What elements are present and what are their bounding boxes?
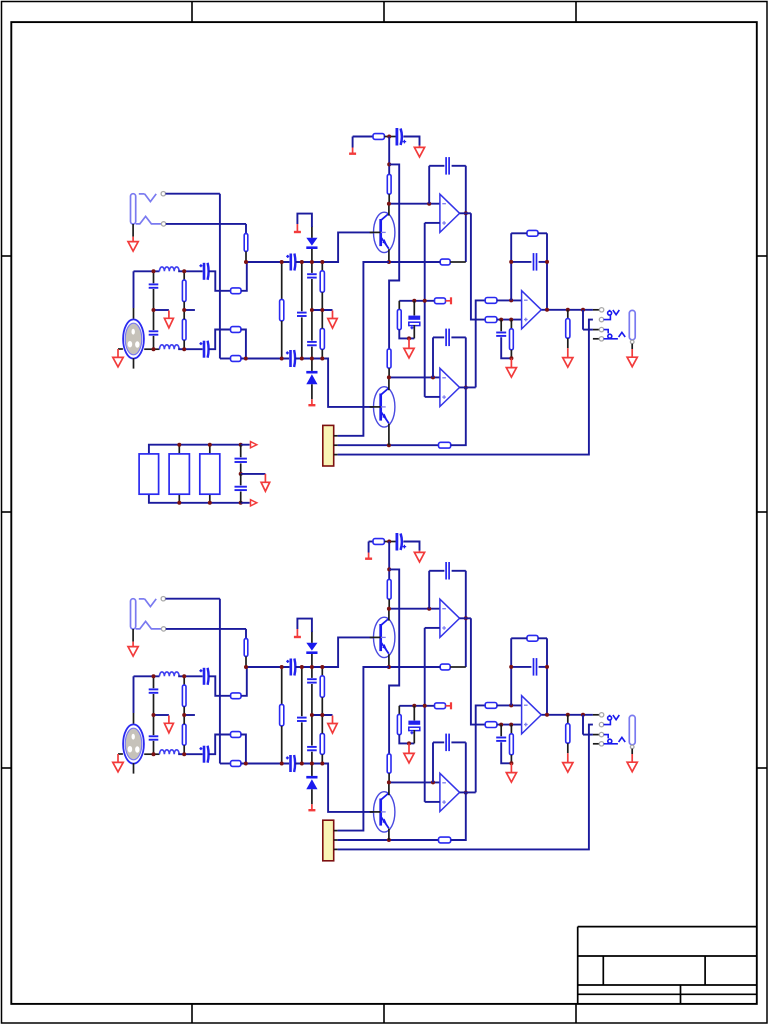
ground: [261, 474, 270, 491]
wire: [567, 338, 569, 348]
junction: [412, 704, 416, 708]
wire: [389, 376, 440, 378]
pin: [599, 732, 603, 736]
jack J2 contact link: [604, 315, 611, 319]
wire: [425, 627, 440, 629]
wire: [593, 734, 599, 736]
connector J1 input jack body: [131, 194, 136, 224]
wire: [460, 791, 476, 793]
wire: [542, 714, 593, 716]
wire: [338, 444, 439, 446]
resistor R2B: [231, 693, 241, 699]
diode D2B: [306, 776, 317, 789]
op-amp U1B: [440, 599, 460, 637]
wire: [398, 706, 400, 715]
jack J2B tip contact: [608, 715, 620, 720]
wire: [321, 292, 323, 310]
wire: [321, 349, 323, 358]
wire: [389, 608, 440, 610]
wire: [183, 340, 185, 349]
port: [241, 444, 250, 446]
resistor RN1: [139, 454, 159, 494]
junction: [320, 713, 324, 717]
tick mark: [575, 1004, 577, 1023]
resistor R7: [280, 299, 284, 321]
wire: [321, 754, 323, 763]
junction: [387, 607, 391, 611]
wire: [321, 667, 323, 676]
capacitor C11 feedback: [446, 157, 449, 175]
wire: [311, 279, 313, 310]
junction: [244, 260, 248, 264]
pin: [599, 713, 603, 717]
tick mark: [2, 767, 12, 769]
wire: [476, 705, 486, 792]
junction: [431, 780, 435, 784]
connector P1 header: [323, 425, 334, 466]
junction: [464, 386, 468, 390]
wire: [246, 666, 289, 668]
junction: [387, 540, 391, 544]
wire: [465, 166, 467, 262]
resistor R8B: [320, 676, 324, 698]
wire: [132, 629, 134, 642]
wire: [424, 223, 426, 397]
wire: [471, 213, 485, 319]
wire: [209, 735, 231, 755]
wire: [241, 735, 246, 764]
wire: [460, 617, 471, 619]
junction: [387, 443, 391, 447]
power terminal: [349, 148, 356, 154]
junction: [509, 318, 513, 322]
resistor R3: [231, 327, 241, 333]
wire: [388, 194, 390, 204]
wire: [183, 707, 185, 716]
wire: [241, 262, 247, 291]
power terminal: [308, 399, 315, 405]
wire: [451, 388, 466, 446]
capacitor C3B: [199, 668, 208, 685]
capacitor C10B: [397, 533, 406, 551]
junction: [310, 357, 314, 361]
wire: [511, 261, 531, 263]
wire: [389, 569, 399, 754]
wire: [297, 619, 312, 632]
resistor R5B: [182, 724, 186, 745]
wire: [389, 164, 399, 349]
junction: [182, 713, 186, 717]
wire: [593, 338, 599, 340]
wire: [388, 424, 390, 446]
resistor R15B: [397, 715, 401, 735]
wire: [245, 251, 247, 262]
tick mark: [757, 255, 767, 257]
wire: [311, 249, 313, 262]
wire: [295, 764, 374, 812]
wire: [398, 301, 400, 310]
diode D2: [306, 371, 317, 384]
junction: [152, 752, 156, 756]
wire: [511, 637, 527, 639]
capacitor CN2: [235, 487, 247, 490]
wire: [471, 618, 485, 724]
pin: [599, 317, 603, 321]
wire: [312, 309, 333, 311]
jack J2 sleeve contact: [604, 332, 626, 338]
jack J2B contact: [604, 735, 609, 739]
junction: [177, 443, 181, 447]
resistor R12: [387, 349, 391, 368]
capacitor C12B electrolytic: [408, 721, 420, 735]
wire: [388, 249, 390, 262]
wire: [281, 262, 283, 299]
wire: [433, 741, 444, 743]
junction: [509, 723, 513, 727]
power terminal: [446, 297, 452, 304]
wire: [497, 319, 522, 321]
junction: [423, 299, 427, 303]
capacitor C15: [496, 333, 506, 336]
pin: [599, 327, 603, 331]
wire: [425, 801, 440, 803]
pin: [599, 742, 603, 746]
wire: [452, 570, 466, 572]
wire: [311, 684, 313, 715]
resistor R6B: [231, 761, 241, 767]
tick mark: [383, 2, 385, 23]
wire: [153, 271, 155, 283]
junction: [152, 347, 156, 351]
junction: [208, 443, 212, 447]
junction: [239, 443, 243, 447]
wire: [240, 474, 242, 485]
junction: [310, 260, 314, 264]
wire: [183, 745, 185, 754]
capacitor C10: [397, 128, 406, 146]
junction: [464, 616, 468, 620]
tick mark: [575, 2, 577, 23]
wire: [428, 571, 430, 609]
wire: [546, 638, 548, 715]
pin: [630, 340, 634, 344]
pin: [599, 722, 603, 726]
wire: [144, 753, 159, 755]
wire: [582, 715, 584, 735]
wire: [388, 368, 390, 377]
capacitor C1: [149, 284, 159, 287]
wire: [245, 224, 247, 234]
junction: [280, 260, 284, 264]
ground: [328, 311, 337, 329]
pin: [161, 627, 165, 631]
wire: [352, 137, 354, 148]
junction: [545, 260, 549, 264]
wire: [403, 137, 419, 146]
capacitor C7: [297, 313, 307, 316]
wire: [295, 637, 373, 667]
wire: [311, 226, 313, 238]
jack J1B ring contact: [136, 621, 161, 629]
wire: [178, 348, 202, 350]
ground: [128, 642, 138, 657]
resistor R12B: [387, 754, 391, 773]
wire: [240, 463, 242, 474]
wire: [388, 773, 390, 782]
junction: [566, 713, 570, 717]
wire: [476, 300, 486, 387]
junction: [387, 780, 391, 784]
junction: [581, 713, 585, 717]
inductor L2B: [160, 750, 180, 754]
pin: [334, 848, 338, 850]
wire: [178, 675, 202, 677]
junction: [310, 308, 314, 312]
capacitor C9B: [307, 747, 317, 750]
wire: [510, 320, 512, 329]
resistor R19: [510, 329, 514, 350]
diode D1: [306, 238, 317, 249]
junction: [280, 762, 284, 766]
junction: [509, 665, 513, 669]
wire: [369, 541, 373, 543]
wire: [511, 666, 531, 668]
wire: [500, 320, 502, 332]
junction: [310, 762, 314, 766]
tick mark: [383, 1004, 385, 1023]
wire: [153, 289, 155, 310]
resistor R21: [439, 442, 451, 448]
port: [241, 502, 250, 504]
wire: [311, 359, 313, 371]
wire: [133, 358, 135, 369]
wire: [153, 336, 155, 349]
ground: [627, 349, 637, 367]
wire: [510, 350, 512, 359]
resistor R18 feedback: [527, 230, 538, 236]
capacitor C13B feedback: [446, 734, 449, 752]
power terminal: [308, 804, 315, 810]
junction: [566, 308, 570, 312]
tick mark: [191, 1004, 193, 1023]
resistor R7B: [280, 704, 284, 726]
pin: [599, 337, 603, 341]
wire: [118, 753, 123, 755]
connector J2 output jack body: [629, 310, 635, 339]
wire: [338, 839, 439, 841]
junction: [310, 665, 314, 669]
junction: [509, 298, 513, 302]
junction: [509, 703, 513, 707]
resistor R15: [397, 310, 401, 330]
resistor R10: [373, 134, 384, 140]
wire: [399, 300, 434, 302]
wire: [388, 137, 390, 175]
junction: [152, 713, 156, 717]
junction: [244, 665, 248, 669]
junction: [310, 713, 314, 717]
wire: [567, 743, 569, 753]
resistor R1B: [244, 639, 248, 657]
junction: [280, 665, 284, 669]
wire: [183, 302, 185, 311]
wire: [510, 638, 512, 705]
wire: [311, 752, 313, 764]
wire: [240, 492, 242, 503]
junction: [464, 791, 468, 795]
wire: [384, 541, 395, 543]
wire: [219, 194, 221, 359]
wire: [389, 203, 440, 205]
wire: [178, 494, 180, 503]
wire: [465, 337, 467, 387]
wire: [209, 445, 211, 454]
ground: [404, 338, 414, 358]
junction: [423, 704, 427, 708]
wire: [153, 694, 155, 715]
capacitor C14 feedback: [534, 253, 537, 271]
capacitor C13 feedback: [446, 329, 449, 347]
wire: [500, 725, 502, 737]
connector J2B output jack body: [629, 715, 635, 744]
wire: [311, 764, 313, 776]
capacitor C7B: [297, 718, 307, 721]
jack J1 ring contact: [136, 216, 161, 224]
resistor R16: [485, 298, 497, 304]
wire: [241, 667, 247, 696]
pin: [334, 839, 338, 841]
junction: [182, 347, 186, 351]
pin: [334, 830, 338, 832]
capacitor C1B: [149, 689, 159, 692]
pin: [161, 192, 165, 196]
wire: [388, 782, 390, 795]
junction: [320, 260, 324, 264]
capacitor CN1: [235, 459, 247, 462]
connector X1B XLR: [123, 724, 144, 763]
junction: [545, 713, 549, 717]
jack J1 tip contact: [139, 194, 156, 202]
wire: [321, 262, 323, 271]
junction: [509, 356, 513, 360]
op-amp U2: [440, 368, 460, 406]
capacitor C2B: [149, 736, 159, 739]
wire: [321, 310, 323, 328]
junction: [407, 336, 411, 340]
diode D1B: [306, 643, 317, 654]
wire: [338, 725, 593, 850]
resistor R9: [320, 328, 324, 349]
wire: [311, 631, 313, 643]
resistor R5: [182, 319, 186, 340]
capacitor C12 electrolytic: [408, 316, 420, 330]
wire: [166, 223, 246, 225]
junction: [545, 308, 549, 312]
junction: [182, 269, 186, 273]
wire: [399, 735, 414, 744]
wire: [301, 722, 303, 763]
junction: [387, 838, 391, 842]
wire: [413, 325, 415, 338]
wire: [295, 232, 373, 262]
resistor R19B: [510, 734, 514, 755]
pin: [334, 454, 338, 456]
wire: [429, 570, 444, 572]
resistor R17B: [485, 722, 497, 728]
junction: [244, 762, 248, 766]
wire: [413, 301, 415, 316]
junction: [320, 665, 324, 669]
wire: [245, 656, 247, 667]
wire: [219, 599, 221, 764]
junction: [300, 357, 304, 361]
pin: [161, 222, 165, 226]
wire: [631, 749, 633, 754]
junction: [509, 761, 513, 765]
wire: [133, 763, 135, 774]
wire: [301, 262, 303, 311]
op-amp U3: [522, 291, 542, 329]
wire: [311, 789, 313, 804]
wire: [425, 396, 440, 398]
wire: [425, 222, 440, 224]
wire: [593, 329, 599, 331]
wire: [593, 743, 599, 745]
wire: [450, 261, 466, 263]
wire: [583, 734, 593, 736]
tick mark: [191, 2, 193, 23]
junction: [427, 202, 431, 206]
capacitor C6B: [286, 755, 295, 772]
ground: [414, 146, 424, 157]
junction: [208, 501, 212, 505]
capacitor C2: [149, 331, 159, 334]
wire: [209, 676, 231, 696]
wire: [399, 705, 434, 707]
wire: [166, 193, 220, 195]
wire: [281, 726, 283, 764]
ground: [113, 349, 123, 367]
power terminal: [446, 702, 452, 709]
capacitor C8B: [307, 679, 317, 682]
junction: [152, 674, 156, 678]
capacitor C4: [199, 341, 208, 358]
resistor R18B feedback: [527, 635, 538, 641]
transistor Q2: [370, 387, 395, 427]
junction: [499, 723, 503, 727]
capacitor C15B: [496, 738, 506, 741]
jack J2 tip contact: [608, 310, 620, 315]
wire: [311, 667, 313, 678]
wire: [311, 262, 313, 273]
junction: [431, 375, 435, 379]
junction: [412, 299, 416, 303]
wire: [338, 262, 389, 436]
wire: [184, 714, 195, 716]
wire: [209, 494, 211, 503]
wire: [413, 730, 415, 743]
wire: [144, 348, 159, 350]
junction: [177, 501, 181, 505]
wire: [245, 629, 247, 639]
wire: [432, 337, 434, 377]
wire: [183, 310, 185, 319]
resistor R20: [566, 319, 570, 339]
wire: [241, 330, 246, 359]
junction: [300, 762, 304, 766]
junction: [387, 260, 391, 264]
junction: [300, 260, 304, 264]
